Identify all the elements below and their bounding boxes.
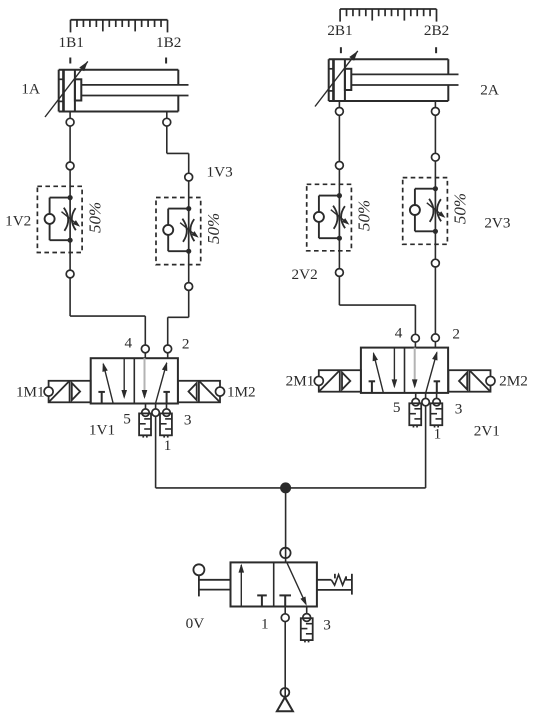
svg-text:3: 3 [184,412,192,429]
svg-text:50%: 50% [355,200,374,231]
svg-text:1: 1 [261,616,269,633]
svg-text:1V2: 1V2 [5,212,31,229]
svg-text:4: 4 [125,335,133,352]
svg-text:1M1: 1M1 [16,383,45,400]
svg-text:2M2: 2M2 [499,373,528,390]
svg-text:1: 1 [434,426,442,443]
svg-text:1A: 1A [21,80,40,97]
svg-text:1B2: 1B2 [156,34,181,51]
svg-text:3: 3 [455,400,463,417]
svg-text:2M1: 2M1 [286,373,315,390]
svg-text:1V3: 1V3 [207,164,233,181]
svg-text:50%: 50% [451,193,470,224]
svg-text:3: 3 [323,617,331,634]
svg-text:1: 1 [164,437,172,454]
svg-text:1V1: 1V1 [89,422,115,439]
svg-text:4: 4 [395,325,403,342]
svg-text:2B2: 2B2 [424,22,449,39]
svg-text:2B1: 2B1 [327,22,352,39]
svg-text:1B1: 1B1 [59,34,84,51]
svg-text:5: 5 [123,411,131,428]
svg-text:5: 5 [393,399,401,416]
svg-text:0V: 0V [186,615,205,632]
svg-text:2V3: 2V3 [484,215,510,232]
svg-text:50%: 50% [85,202,104,233]
svg-text:2V1: 2V1 [474,423,500,440]
svg-text:2A: 2A [480,81,499,98]
svg-text:2: 2 [452,326,460,343]
svg-text:2: 2 [182,335,190,352]
svg-text:50%: 50% [204,213,223,244]
svg-text:1M2: 1M2 [227,383,256,400]
svg-text:2V2: 2V2 [292,266,318,283]
